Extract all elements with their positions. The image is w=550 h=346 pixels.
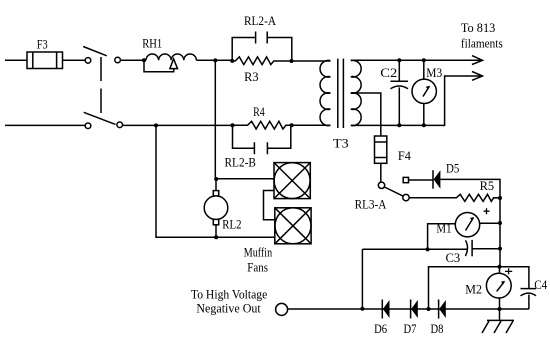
svg-text:filaments: filaments (461, 37, 503, 51)
svg-text:F3: F3 (37, 38, 48, 52)
svg-text:Muffin: Muffin (244, 246, 273, 260)
svg-text:F4: F4 (398, 149, 412, 163)
svg-text:D6: D6 (374, 322, 387, 336)
svg-text:To 813: To 813 (461, 21, 495, 35)
svg-text:M3: M3 (426, 66, 442, 80)
svg-text:To High Voltage: To High Voltage (191, 288, 268, 302)
svg-text:M1: M1 (436, 222, 451, 236)
svg-text:M2: M2 (465, 283, 482, 297)
svg-text:RL2: RL2 (222, 218, 241, 232)
svg-text:D8: D8 (431, 322, 444, 336)
svg-text:R3: R3 (244, 70, 258, 84)
svg-text:D7: D7 (404, 322, 417, 336)
svg-text:Fans: Fans (247, 261, 268, 275)
svg-text:RH1: RH1 (142, 37, 162, 51)
svg-text:RL2-A: RL2-A (244, 14, 276, 28)
svg-text:RL2-B: RL2-B (225, 156, 257, 170)
svg-text:R5: R5 (480, 179, 495, 193)
svg-text:RL3-A: RL3-A (355, 198, 387, 212)
svg-text:D5: D5 (446, 162, 459, 176)
svg-text:C3: C3 (446, 251, 461, 265)
svg-text:C2: C2 (380, 66, 397, 80)
svg-text:R4: R4 (253, 105, 265, 119)
svg-text:T3: T3 (333, 137, 349, 151)
svg-text:Negative Out: Negative Out (196, 302, 261, 316)
svg-text:C4: C4 (534, 278, 548, 292)
